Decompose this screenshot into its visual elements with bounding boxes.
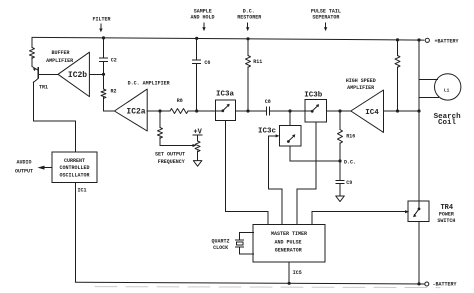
svg-text:Coil: Coil bbox=[438, 119, 457, 127]
svg-text:SAMPLE: SAMPLE bbox=[194, 8, 212, 14]
svg-text:FREQUENCY: FREQUENCY bbox=[158, 159, 185, 165]
svg-text:IC5: IC5 bbox=[293, 270, 302, 276]
svg-text:D.C. AMPLIFIER: D.C. AMPLIFIER bbox=[128, 81, 170, 87]
svg-text:AND HOLD: AND HOLD bbox=[190, 15, 214, 21]
svg-text:C2: C2 bbox=[111, 57, 117, 63]
svg-text:R2: R2 bbox=[110, 89, 116, 95]
svg-text:R8: R8 bbox=[177, 98, 183, 104]
svg-text:TR1: TR1 bbox=[39, 85, 48, 91]
svg-text:IC3b: IC3b bbox=[304, 92, 323, 100]
svg-text:IC4: IC4 bbox=[365, 109, 379, 117]
svg-text:-BATTERY: -BATTERY bbox=[433, 281, 457, 287]
svg-text:SEPERATOR: SEPERATOR bbox=[312, 15, 339, 21]
svg-text:OUTPUT: OUTPUT bbox=[15, 168, 33, 174]
svg-text:AMPLIFIER: AMPLIFIER bbox=[347, 85, 374, 91]
svg-text:IC3c: IC3c bbox=[258, 127, 277, 135]
svg-text:C9: C9 bbox=[346, 180, 352, 186]
svg-text:CURRENT: CURRENT bbox=[64, 158, 85, 164]
svg-text:QUARTZ: QUARTZ bbox=[211, 238, 229, 244]
svg-text:BUFFER: BUFFER bbox=[51, 50, 69, 56]
svg-text:IC2b: IC2b bbox=[68, 71, 87, 80]
svg-text:POWER: POWER bbox=[439, 212, 454, 218]
svg-text:SET OUTPUT: SET OUTPUT bbox=[155, 152, 185, 158]
svg-text:OSCILLATOR: OSCILLATOR bbox=[59, 173, 89, 179]
svg-text:AMPLIFIER: AMPLIFIER bbox=[46, 58, 73, 64]
svg-text:IC3a: IC3a bbox=[216, 91, 235, 99]
svg-text:+V: +V bbox=[193, 128, 202, 136]
svg-text:L1: L1 bbox=[444, 87, 450, 93]
svg-text:AUDIO: AUDIO bbox=[16, 159, 31, 165]
svg-text:C6: C6 bbox=[204, 60, 210, 66]
svg-text:R11: R11 bbox=[253, 59, 262, 65]
svg-text:D.C.: D.C. bbox=[344, 160, 356, 166]
svg-text:CONTROLLED: CONTROLLED bbox=[59, 165, 89, 171]
svg-text:R16: R16 bbox=[346, 134, 355, 140]
svg-text:PULSE TAIL: PULSE TAIL bbox=[311, 8, 341, 14]
svg-text:D.C.: D.C. bbox=[243, 8, 255, 14]
svg-text:RESTORER: RESTORER bbox=[237, 15, 261, 21]
svg-text:FILTER: FILTER bbox=[92, 17, 110, 23]
svg-text:SWITCH: SWITCH bbox=[437, 218, 455, 224]
svg-text:+BATTERY: +BATTERY bbox=[435, 38, 459, 44]
svg-text:C8: C8 bbox=[265, 99, 271, 105]
svg-text:HIGH SPEED: HIGH SPEED bbox=[346, 78, 376, 84]
svg-text:AND PULSE: AND PULSE bbox=[274, 240, 301, 246]
svg-text:IC1: IC1 bbox=[77, 188, 86, 194]
svg-text:CLOCK: CLOCK bbox=[213, 245, 228, 251]
svg-text:MASTER TIMER: MASTER TIMER bbox=[271, 231, 307, 237]
svg-text:GENERATOR: GENERATOR bbox=[275, 248, 302, 254]
svg-text:IC2a: IC2a bbox=[126, 108, 145, 117]
